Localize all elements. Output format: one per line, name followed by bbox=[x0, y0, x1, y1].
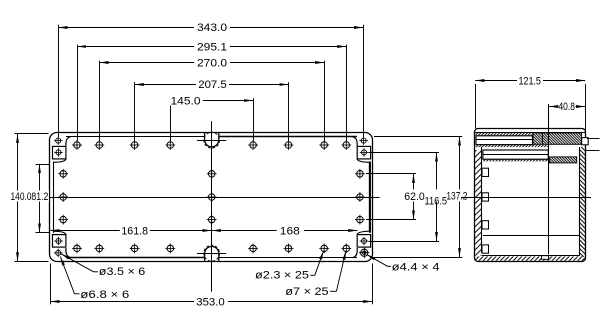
lid slab B bbox=[476, 136, 533, 145]
extension line 295.1 left bbox=[77, 45, 79, 141]
top notch tick line bbox=[197, 140, 226, 142]
lid block divider bbox=[542, 133, 544, 144]
dimension line 62.0 bbox=[413, 174, 415, 220]
svg-text:ø7 × 25: ø7 × 25 bbox=[285, 286, 328, 298]
svg-text:161.8: 161.8 bbox=[121, 226, 148, 238]
plate vertical centerline bbox=[211, 121, 213, 291]
strip under slab C bbox=[483, 159, 548, 161]
ear hole top-left inner bbox=[54, 148, 63, 157]
slab C midline bbox=[483, 154, 548, 156]
dimension line 40.8 left part bbox=[549, 106, 558, 108]
extension line 81.2 bottom bbox=[36, 232, 50, 234]
tab line upper bbox=[587, 138, 600, 140]
right column holes bbox=[355, 169, 365, 225]
hatch block 2 bbox=[549, 157, 576, 163]
dimension line 168 bbox=[212, 230, 358, 232]
extension line 343.0 left bbox=[58, 25, 60, 137]
ear hole top-right inner bbox=[360, 148, 369, 157]
dimension line 270.0 bbox=[99, 62, 324, 64]
ear hole top-right outer bbox=[359, 136, 368, 145]
plate inner left edge bbox=[53, 162, 55, 233]
wall boss 1 bbox=[482, 168, 489, 176]
bottom notch tick line bbox=[197, 253, 226, 255]
lid slab B midline bbox=[476, 139, 533, 141]
ear hole bottom-left inner bbox=[54, 237, 63, 246]
bottom notch bbox=[205, 247, 219, 261]
plate outer outline bbox=[50, 133, 373, 262]
top notch bbox=[205, 132, 219, 147]
extension line 62.0 bottom bbox=[366, 219, 416, 221]
side view outer outline bbox=[475, 129, 586, 262]
svg-text:168: 168 bbox=[280, 226, 300, 238]
extension line 81.2 top bbox=[36, 164, 50, 166]
svg-text:62.0: 62.0 bbox=[404, 191, 425, 203]
corner boss bottom-right bbox=[352, 231, 370, 258]
svg-text:116.5: 116.5 bbox=[425, 195, 448, 207]
corner boss top-left bbox=[53, 137, 71, 163]
corner boss top-right bbox=[352, 137, 370, 163]
svg-text:ø4.4 × 4: ø4.4 × 4 bbox=[392, 262, 440, 274]
ear hole bottom-right counterbore bbox=[359, 248, 369, 258]
svg-text:295.1: 295.1 bbox=[197, 42, 227, 54]
extension line 353.0 right bbox=[372, 264, 374, 305]
side view centerline bbox=[461, 197, 591, 199]
extension line 121.5 left bbox=[475, 84, 477, 129]
right tab bbox=[582, 138, 589, 145]
lid dense hatch block bbox=[533, 133, 582, 144]
bottom notch hidden circle bbox=[204, 245, 220, 261]
side view lid top line bbox=[474, 132, 586, 134]
ear hole bottom-right inner bbox=[360, 237, 369, 246]
dimension line 343.0 bbox=[58, 27, 363, 29]
extension line 207.5 right bbox=[288, 82, 290, 141]
leader Ø3.5 bbox=[61, 254, 94, 272]
extension line 343.0 right bbox=[363, 25, 365, 137]
inner shelf line bbox=[483, 235, 579, 237]
tab line lower bbox=[586, 150, 600, 152]
svg-text:81.2: 81.2 bbox=[31, 191, 48, 203]
lid gasket hatch band bbox=[476, 133, 534, 136]
leader Ø7 bbox=[336, 251, 346, 292]
slab C bbox=[483, 150, 548, 159]
extension line 270.0 right bbox=[324, 61, 326, 141]
extension line 62.0 top bbox=[366, 173, 416, 175]
extension line 140.0 top bbox=[15, 133, 49, 135]
dimension line 137.2 bbox=[459, 136, 461, 257]
dimension line 295.1 bbox=[77, 46, 346, 48]
center column holes bbox=[207, 169, 217, 225]
corner boss bottom-left bbox=[53, 231, 71, 258]
leader Ø6.8 bbox=[60, 257, 74, 294]
dimension line 207.5 bbox=[135, 84, 289, 86]
dimension line 81.2 bbox=[39, 164, 41, 233]
wall boss 3 bbox=[482, 221, 489, 229]
svg-text:140.0: 140.0 bbox=[11, 191, 32, 203]
dimension line 145.0 bbox=[170, 100, 253, 102]
extension line 353.0 left bbox=[50, 264, 52, 305]
svg-text:145.0: 145.0 bbox=[171, 95, 201, 107]
leader Ø2.3 bbox=[315, 251, 324, 276]
dimension line 116.5 bbox=[436, 152, 438, 241]
extension line 270.0 left bbox=[99, 61, 101, 141]
svg-text:40.8: 40.8 bbox=[558, 101, 575, 113]
wall boss 4 bbox=[482, 245, 489, 253]
svg-text:ø2.3 × 25: ø2.3 × 25 bbox=[255, 270, 309, 282]
svg-text:ø6.8 × 6: ø6.8 × 6 bbox=[80, 289, 129, 301]
svg-text:353.0: 353.0 bbox=[196, 296, 225, 308]
svg-text:207.5: 207.5 bbox=[198, 79, 227, 91]
dimension line 40.8 right part bbox=[576, 106, 586, 108]
wall boss 2 bbox=[482, 193, 489, 201]
dimension line 121.5 bbox=[475, 80, 585, 82]
extension line 140.0 bottom bbox=[15, 261, 49, 263]
partition vertical line bbox=[548, 104, 550, 254]
extension line 116.5 top bbox=[369, 152, 440, 154]
extension line 121.5/40.8 right bbox=[585, 84, 587, 136]
left wall inner line bbox=[481, 147, 483, 253]
floor step notch bbox=[542, 256, 549, 260]
plate inner top edge right segment bbox=[219, 136, 357, 138]
top notch hidden circle bbox=[204, 132, 220, 148]
left column holes bbox=[58, 169, 68, 225]
extension line 137.2 top bbox=[374, 136, 462, 138]
top row holes bbox=[72, 140, 351, 150]
svg-text:ø3.5 × 6: ø3.5 × 6 bbox=[99, 266, 146, 278]
plate inner right edge bbox=[369, 162, 371, 233]
gasket dashed strip bbox=[476, 145, 549, 147]
ear hole bottom-left outer bbox=[54, 249, 63, 258]
floor inner line bbox=[482, 255, 579, 257]
dimension line 161.8 bbox=[51, 230, 212, 232]
svg-text:343.0: 343.0 bbox=[197, 22, 227, 34]
right wall hatch bbox=[580, 147, 585, 257]
svg-text:121.5: 121.5 bbox=[518, 75, 541, 87]
leader Ø4.4 bbox=[367, 254, 388, 266]
bottom row holes bbox=[72, 244, 351, 254]
floor hatch bbox=[475, 256, 585, 260]
right wall inner line bbox=[579, 147, 581, 256]
dimension line 140.0 bbox=[17, 134, 19, 262]
svg-text:137.2: 137.2 bbox=[446, 191, 467, 203]
plate inner top edge left segment bbox=[66, 136, 205, 138]
dimension line 353.0 bbox=[50, 301, 372, 303]
plate inner bottom edge right segment bbox=[219, 257, 357, 259]
left wall hatch bbox=[475, 150, 482, 256]
extension line 295.1 right bbox=[346, 45, 348, 141]
extension line 137.2 bottom bbox=[370, 257, 462, 259]
extension line 145.0 left bbox=[170, 98, 172, 141]
svg-text:270.0: 270.0 bbox=[197, 58, 227, 70]
extension line 207.5 left bbox=[134, 82, 136, 141]
plate horizontal centerline bbox=[50, 197, 380, 199]
extension line 116.5 bottom bbox=[369, 241, 440, 243]
plate inner bottom edge left segment bbox=[66, 257, 205, 259]
extension line 145.0 right bbox=[253, 98, 255, 141]
ear hole top-left outer bbox=[54, 136, 63, 145]
